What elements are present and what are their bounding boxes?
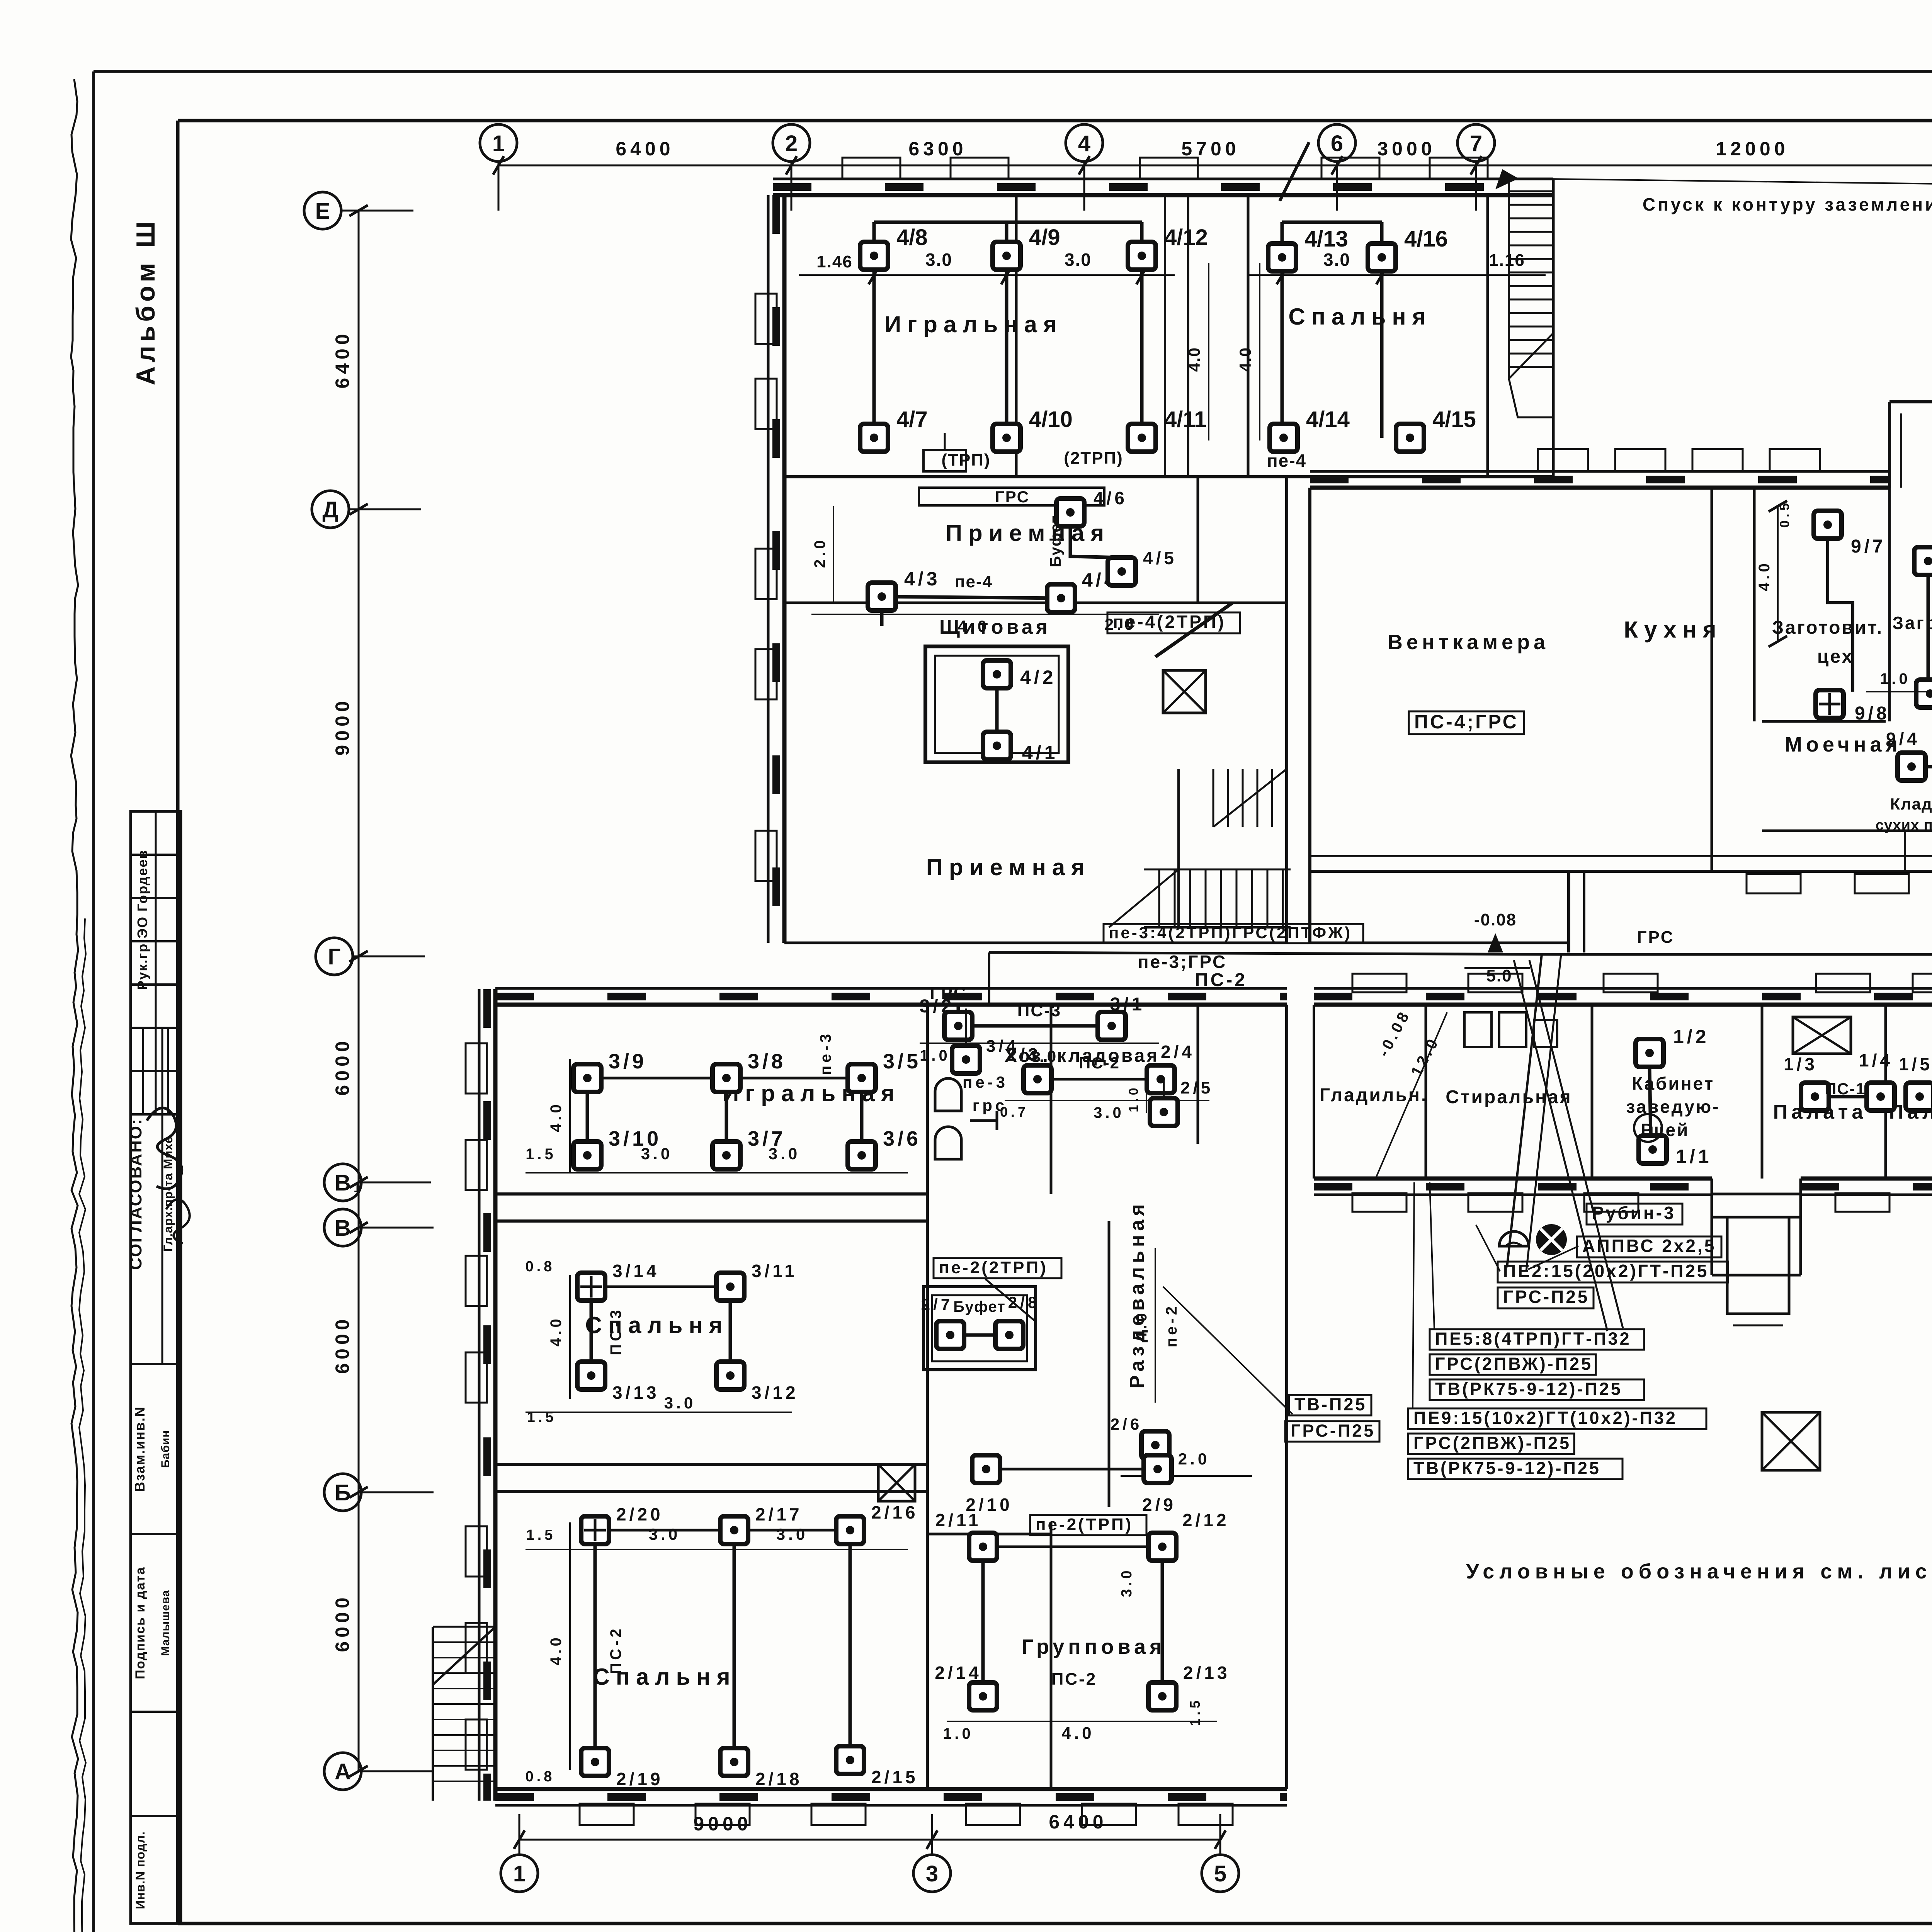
svg-text:ПС-2: ПС-2 <box>1051 1670 1097 1689</box>
svg-text:Альбом Ш: Альбом Ш <box>131 218 160 385</box>
svg-text:ГРС(2ПВЖ)-П25: ГРС(2ПВЖ)-П25 <box>1435 1354 1593 1374</box>
axis circle А <box>324 1753 361 1790</box>
svg-text:Рубин-3: Рубин-3 <box>1592 1203 1676 1223</box>
svg-text:Буфет: Буфет <box>953 1298 1006 1315</box>
fixture 3/6 <box>848 1141 876 1169</box>
svg-text:3.0: 3.0 <box>925 250 952 270</box>
lower-left wing bottom facade wall <box>495 1787 1287 1791</box>
svg-text:пе-3;ГРС: пе-3;ГРС <box>1138 952 1227 972</box>
fixture 4/9 <box>993 242 1020 270</box>
svg-text:9/8: 9/8 <box>1855 703 1890 724</box>
fixture 4/11 <box>1128 424 1156 452</box>
window bumps kitchen south wall <box>1747 874 1801 893</box>
svg-text:ГРС: ГРС <box>930 984 968 1003</box>
toilet fixtures row <box>935 1078 961 1111</box>
buffet fixtures 4/5 4/6 <box>1056 498 1084 526</box>
fixture 4/10 <box>993 424 1020 452</box>
svg-text:ПС-3: ПС-3 <box>1017 1001 1062 1020</box>
ventilation shaft X boxes <box>1793 1017 1851 1054</box>
svg-text:цех: цех <box>1817 646 1854 667</box>
fixture 4/15 <box>1396 424 1424 452</box>
axis circle B1 <box>324 1164 361 1201</box>
svg-text:ГРС: ГРС <box>995 488 1030 506</box>
vertical dim 4.0 pair top <box>1208 263 1209 440</box>
svg-text:ПС-4;ГРС: ПС-4;ГРС <box>1414 711 1519 733</box>
svg-text:пе-2: пе-2 <box>1163 1303 1180 1347</box>
svg-text:2/11: 2/11 <box>935 1510 981 1530</box>
svg-text:4.0: 4.0 <box>548 1634 565 1665</box>
svg-text:3/11: 3/11 <box>752 1261 798 1281</box>
svg-text:Подпись и дата: Подпись и дата <box>133 1566 148 1679</box>
upper rooms dim line <box>799 274 1175 276</box>
lower wings top facade wall with windows <box>495 1003 1287 1007</box>
svg-text:2/5: 2/5 <box>1180 1078 1213 1097</box>
left dimension line <box>358 211 360 1771</box>
fixture 3/5 <box>848 1064 876 1092</box>
svg-text:3.0: 3.0 <box>769 1145 800 1163</box>
labels TRP 2TRP <box>919 488 1104 505</box>
svg-text:пе-3:4(2ТРП)ГРС(2ПТФЖ): пе-3:4(2ТРП)ГРС(2ПТФЖ) <box>1109 923 1352 942</box>
svg-text:Д: Д <box>322 497 338 522</box>
svg-text:0.8: 0.8 <box>526 1259 555 1275</box>
svg-text:7: 7 <box>1470 131 1482 156</box>
annotation stack TV GRS small <box>1289 1395 1371 1415</box>
svg-text:Взам.инв.N: Взам.инв.N <box>132 1406 148 1492</box>
svg-text:Г: Г <box>328 944 341 969</box>
svg-text:Моечная: Моечная <box>1785 733 1901 756</box>
svg-text:1/1: 1/1 <box>1676 1146 1712 1167</box>
kitchen wiring 9/7 9/8 <box>1828 539 1853 692</box>
svg-text:ПЕ5:8(4ТРП)ГТ-П32: ПЕ5:8(4ТРП)ГТ-П32 <box>1435 1329 1631 1349</box>
svg-text:пе-2(ТРП): пе-2(ТРП) <box>1036 1515 1133 1534</box>
svg-text:4/8: 4/8 <box>896 225 928 250</box>
svg-text:ПЕ2:15(20х2)ГТ-П25: ПЕ2:15(20х2)ГТ-П25 <box>1503 1261 1709 1281</box>
svg-text:4/15: 4/15 <box>1432 407 1476 432</box>
fixture 2/5 <box>1150 1098 1178 1126</box>
svg-text:3.0: 3.0 <box>664 1394 696 1412</box>
svg-text:4/1: 4/1 <box>1022 742 1058 764</box>
fixture 4/14 <box>1270 424 1298 452</box>
svg-text:4.0: 4.0 <box>548 1316 565 1347</box>
svg-text:ПС-2: ПС-2 <box>1079 1054 1120 1072</box>
svg-text:ПС-2: ПС-2 <box>607 1626 624 1674</box>
svg-text:ГРС-П25: ГРС-П25 <box>1503 1287 1589 1307</box>
axis circle Б <box>324 1474 361 1511</box>
svg-text:Спуск к контуру заземления: Спуск к контуру заземления <box>1643 194 1932 214</box>
svg-text:-0.08: -0.08 <box>1474 910 1517 929</box>
svg-text:6400: 6400 <box>616 138 674 160</box>
svg-text:2/4: 2/4 <box>1161 1042 1195 1062</box>
axis circle 3 bottom <box>913 1855 951 1892</box>
wiring run sleeping room top <box>1282 221 1382 224</box>
svg-text:заведую-: заведую- <box>1626 1097 1720 1117</box>
svg-text:4/11: 4/11 <box>1164 407 1207 432</box>
annotation stack left-mid 2 <box>1430 1329 1644 1350</box>
svg-text:12000: 12000 <box>1716 138 1789 160</box>
svg-text:6000: 6000 <box>332 1315 353 1374</box>
label APPVS 2x2.5 <box>1577 1236 1721 1257</box>
svg-text:Кладовая: Кладовая <box>1890 795 1932 813</box>
svg-text:3.0: 3.0 <box>776 1525 808 1543</box>
label PS-2(2TRP) <box>934 1258 1061 1278</box>
svg-text:1.16: 1.16 <box>1489 251 1525 270</box>
svg-text:2/17: 2/17 <box>755 1504 803 1524</box>
svg-text:1: 1 <box>492 131 505 156</box>
svg-text:4/6: 4/6 <box>1094 488 1128 508</box>
svg-text:ТВ(РК75-9-12)-П25: ТВ(РК75-9-12)-П25 <box>1413 1458 1601 1478</box>
svg-text:ТВ(РК75-9-12)-П25: ТВ(РК75-9-12)-П25 <box>1435 1379 1622 1399</box>
svg-text:Е: Е <box>315 199 330 224</box>
buffet room box <box>923 1287 1036 1370</box>
svg-text:Групповая: Групповая <box>1021 1635 1165 1658</box>
svg-text:5: 5 <box>1214 1861 1226 1886</box>
svg-text:0.7: 0.7 <box>1000 1104 1029 1120</box>
svg-text:1.0: 1.0 <box>1126 1085 1141 1112</box>
sleeping room 1 wiring <box>591 1286 730 1288</box>
svg-text:6400: 6400 <box>332 330 353 388</box>
svg-text:5.0: 5.0 <box>1486 966 1512 985</box>
svg-text:2/6: 2/6 <box>1111 1415 1142 1433</box>
reception band walls <box>784 602 1287 604</box>
svg-text:4/14: 4/14 <box>1306 407 1350 432</box>
wiring run PS-4 upper playroom <box>874 221 1142 224</box>
axis circle 1 <box>480 124 517 162</box>
fixture 4/8 <box>860 242 888 270</box>
svg-text:Условные обозначения см. лист: Условные обозначения см. лист СС-2. <box>1466 1560 1932 1583</box>
svg-text:пе-4: пе-4 <box>955 572 993 591</box>
svg-text:2: 2 <box>785 131 798 156</box>
svg-text:пе-4(2ТРП): пе-4(2ТРП) <box>1113 612 1226 632</box>
svg-text:3.0: 3.0 <box>1119 1568 1135 1597</box>
svg-text:1/4: 1/4 <box>1859 1050 1893 1070</box>
entry porch below right wing <box>1712 1194 1801 1217</box>
svg-text:1/5: 1/5 <box>1899 1054 1932 1074</box>
svg-text:3/9: 3/9 <box>609 1050 647 1073</box>
svg-text:Приемная: Приемная <box>926 854 1091 880</box>
svg-text:1.0: 1.0 <box>943 1725 974 1742</box>
svg-text:3/6: 3/6 <box>883 1127 921 1150</box>
svg-text:4/9: 4/9 <box>1029 225 1060 250</box>
svg-text:3/5: 3/5 <box>883 1050 921 1073</box>
razdevalnaya dims <box>1155 1248 1156 1403</box>
window bumps left facade lower wing <box>466 1043 487 1094</box>
svg-text:Щитовая: Щитовая <box>939 616 1051 638</box>
svg-text:3.0: 3.0 <box>649 1525 680 1543</box>
svg-text:3: 3 <box>926 1861 938 1886</box>
svg-text:4/13: 4/13 <box>1304 226 1348 252</box>
svg-text:3/13: 3/13 <box>612 1383 660 1403</box>
sleeping room 2 wiring <box>595 1529 850 1532</box>
svg-text:В: В <box>335 1216 351 1241</box>
axis circle Е <box>304 192 341 229</box>
svg-text:2.0: 2.0 <box>1178 1450 1210 1468</box>
label Rubin-3 <box>1587 1204 1682 1225</box>
svg-text:1: 1 <box>513 1861 526 1886</box>
svg-text:3/4: 3/4 <box>986 1037 1019 1056</box>
svg-text:1.0: 1.0 <box>920 1047 951 1064</box>
fixture 4/12 <box>1128 242 1156 270</box>
svg-text:1.0: 1.0 <box>1880 670 1911 687</box>
svg-text:3.0: 3.0 <box>1094 1104 1124 1121</box>
svg-text:пе-3: пе-3 <box>817 1031 834 1075</box>
svg-text:3/1: 3/1 <box>1110 994 1145 1015</box>
svg-text:1.46: 1.46 <box>816 252 853 271</box>
svg-text:ГРС-П25: ГРС-П25 <box>1291 1421 1375 1440</box>
svg-text:9000: 9000 <box>332 697 353 755</box>
axis circle 4 <box>1066 124 1103 162</box>
svg-text:2/18: 2/18 <box>755 1769 803 1789</box>
svg-text:пе-2(2ТРП): пе-2(2ТРП) <box>939 1258 1048 1277</box>
svg-text:2/16: 2/16 <box>871 1502 918 1522</box>
svg-text:4/12: 4/12 <box>1164 225 1208 250</box>
svg-text:2/12: 2/12 <box>1182 1510 1230 1530</box>
svg-text:6300: 6300 <box>908 138 967 160</box>
riser label pe-4(2TRP) <box>1107 612 1240 633</box>
svg-text:3/8: 3/8 <box>748 1050 786 1073</box>
left stamp table column <box>131 811 181 1923</box>
kitchen wiring 9/6 9/5 <box>1927 574 1930 680</box>
svg-text:3.0: 3.0 <box>641 1145 673 1163</box>
axis circle Д <box>312 491 349 528</box>
svg-text:4.0: 4.0 <box>1756 560 1773 591</box>
svg-text:2/19: 2/19 <box>616 1769 663 1789</box>
svg-text:1.5: 1.5 <box>526 1146 556 1163</box>
riser to TV symbols lower middle <box>1507 954 1542 1267</box>
svg-text:4.0: 4.0 <box>1061 1724 1094 1743</box>
svg-text:Игральная: Игральная <box>884 311 1063 337</box>
svg-text:Загрузочная: Загрузочная <box>1892 613 1932 633</box>
svg-text:Рук.гр.ЭО Гордеев: Рук.гр.ЭО Гордеев <box>134 849 150 990</box>
svg-text:6: 6 <box>1331 131 1343 156</box>
svg-text:3/14: 3/14 <box>612 1261 660 1281</box>
svg-text:пе-4: пе-4 <box>1267 451 1306 471</box>
fixture 4/13 <box>1268 243 1296 271</box>
svg-text:4.0: 4.0 <box>1185 347 1203 372</box>
svg-text:4.0: 4.0 <box>1236 347 1254 372</box>
svg-text:Спальня: Спальня <box>585 1312 728 1338</box>
fixture 3/7 <box>713 1141 740 1169</box>
svg-text:ГРС(2ПВЖ)-П25: ГРС(2ПВЖ)-П25 <box>1413 1433 1571 1453</box>
kitchen riser pair to trunk <box>1567 871 1570 952</box>
laundry equipment boxes <box>1464 1012 1492 1047</box>
wiring run reception PS-4 <box>882 597 1061 598</box>
svg-text:6000: 6000 <box>332 1037 353 1095</box>
porch stair bottom-left <box>433 1626 495 1628</box>
window bumps bottom facade lower wing <box>580 1804 634 1825</box>
svg-text:4/2: 4/2 <box>1020 667 1056 688</box>
right wing fixtures PS-1 <box>1636 1039 1663 1067</box>
kitchen wiring 9/1..9/4 <box>1912 765 1932 769</box>
svg-text:Заготовит.: Заготовит. <box>1772 617 1883 638</box>
svg-text:Малышева: Малышева <box>159 1590 172 1656</box>
svg-text:ПС-2: ПС-2 <box>1195 970 1247 990</box>
svg-text:Раздевальная: Раздевальная <box>1126 1200 1148 1388</box>
svg-text:2/9: 2/9 <box>1142 1495 1176 1515</box>
trunk labels mid <box>1104 924 1363 943</box>
svg-text:2.0: 2.0 <box>811 537 828 568</box>
inner frame <box>178 119 1932 122</box>
annotation stack left-mid 1 <box>1498 1262 1728 1282</box>
svg-text:Кабинет: Кабинет <box>1632 1073 1714 1094</box>
TV antenna symbol <box>1536 1224 1567 1255</box>
long riser diagonals through laundry <box>1529 960 1623 1328</box>
wiring run PS-3 reception 2 <box>958 1024 1112 1028</box>
axis circle 7 <box>1458 124 1495 162</box>
schitovaya room walls <box>925 646 1068 762</box>
svg-text:ПС-3: ПС-3 <box>607 1307 624 1355</box>
main corridor trunk run <box>989 952 1932 954</box>
svg-text:4/5: 4/5 <box>1143 548 1177 568</box>
svg-text:3000: 3000 <box>1377 138 1435 160</box>
axis circle Г <box>316 938 353 975</box>
right wing interior walls <box>1425 1005 1427 1179</box>
lower-left wing playroom wiring <box>587 1077 862 1080</box>
kitchen interior walls <box>1753 488 1756 721</box>
kitchen block bottom wall <box>1310 870 1932 873</box>
svg-text:сухих продукт.: сухих продукт. <box>1876 817 1932 833</box>
fixture 3/10 <box>573 1141 601 1169</box>
axis circle В <box>324 1209 361 1246</box>
gruppovaya wiring <box>983 1546 1162 1548</box>
axis circle 1 bottom <box>501 1855 538 1892</box>
svg-text:1/2: 1/2 <box>1673 1026 1709 1048</box>
svg-text:1.5: 1.5 <box>527 1409 557 1425</box>
svg-text:1.5: 1.5 <box>526 1527 556 1543</box>
wiring run pe-2 TRP bottom <box>986 1468 1158 1471</box>
window bumps wing A left facade <box>755 294 777 344</box>
fixture 3/8 <box>713 1064 740 1092</box>
window bumps right wing facades <box>1352 974 1406 992</box>
svg-text:Бабин: Бабин <box>159 1430 172 1468</box>
svg-text:2/15: 2/15 <box>871 1767 918 1787</box>
outer thin border <box>94 70 1932 73</box>
svg-text:СОГЛАСОВАНО:: СОГЛАСОВАНО: <box>126 1118 145 1270</box>
label PS-4 GRS underlined <box>1409 711 1524 734</box>
top dimension line <box>498 165 1932 167</box>
courtyard bottom wall with windows <box>1310 486 1889 490</box>
svg-text:В: В <box>335 1170 351 1196</box>
svg-text:ПЕ9:15(10х2)ГТ(10х2)-П32: ПЕ9:15(10х2)ГТ(10х2)-П32 <box>1413 1408 1677 1428</box>
window bumps courtyard wall <box>1538 449 1588 471</box>
right wing bottom facade wall <box>1314 1177 1712 1181</box>
svg-text:Инв.N подл.: Инв.N подл. <box>133 1831 147 1909</box>
svg-text:Кухня: Кухня <box>1624 617 1722 643</box>
axis circle 6 <box>1318 124 1355 162</box>
svg-text:6000: 6000 <box>332 1594 353 1652</box>
window bump top facade wing A <box>842 158 900 179</box>
svg-text:6400: 6400 <box>1049 1811 1107 1833</box>
svg-text:4: 4 <box>1078 131 1090 156</box>
wing A left facade wall <box>782 195 787 943</box>
buffet fixtures 2/7 2/8 <box>936 1321 964 1349</box>
svg-text:4/7: 4/7 <box>896 407 928 432</box>
svg-text:А: А <box>335 1759 351 1784</box>
svg-text:5700: 5700 <box>1181 138 1240 160</box>
svg-text:(2ТРП): (2ТРП) <box>1064 449 1123 468</box>
svg-text:Р: Р <box>1641 1120 1655 1139</box>
stamp signature scribbles <box>147 1108 182 1189</box>
axis circle 5 bottom <box>1202 1855 1239 1892</box>
svg-text:2/20: 2/20 <box>616 1504 663 1524</box>
svg-text:1.5: 1.5 <box>1187 1697 1203 1726</box>
svg-text:2/7: 2/7 <box>921 1295 953 1313</box>
svg-text:ГРС: ГРС <box>1637 928 1675 947</box>
right block protrusion step <box>1889 400 1932 403</box>
svg-text:4.0: 4.0 <box>548 1101 565 1132</box>
svg-text:Б: Б <box>335 1480 351 1505</box>
svg-text:3/12: 3/12 <box>752 1383 799 1403</box>
svg-text:9000: 9000 <box>693 1813 752 1835</box>
svg-text:ТВ-П25: ТВ-П25 <box>1294 1395 1367 1414</box>
svg-text:1/3: 1/3 <box>1784 1054 1818 1074</box>
svg-text:2/14: 2/14 <box>935 1663 982 1683</box>
main staircase mid-left <box>1158 869 1160 927</box>
wing A top facade wall with windows <box>773 193 1553 197</box>
svg-text:Стиральная: Стиральная <box>1446 1087 1572 1107</box>
ventkamera block walls <box>1308 488 1311 943</box>
svg-text:Спальня: Спальня <box>1288 304 1432 330</box>
sawtooth stair top middle <box>1552 179 1555 417</box>
svg-text:2/13: 2/13 <box>1183 1663 1230 1683</box>
wing A interior walls <box>784 475 1553 478</box>
svg-text:9/7: 9/7 <box>1851 536 1886 557</box>
svg-text:4.0: 4.0 <box>958 617 990 635</box>
fixture 3/9 <box>573 1064 601 1092</box>
torn left paper edge <box>71 79 78 1932</box>
svg-text:4.0: 4.0 <box>1133 1310 1150 1341</box>
svg-text:4/3: 4/3 <box>904 568 940 590</box>
axis circle 2 <box>773 124 810 162</box>
hoz kladovaya wiring <box>1037 1078 1161 1081</box>
svg-text:пе-3: пе-3 <box>963 1073 1008 1091</box>
fixture 4/7 <box>860 424 888 452</box>
svg-text:3.0: 3.0 <box>1323 250 1350 270</box>
grounding loop line along courtyard top <box>1519 179 1932 185</box>
svg-text:9/4: 9/4 <box>1886 729 1920 749</box>
svg-text:3.0: 3.0 <box>1065 250 1092 270</box>
lower-left wing left facade wall <box>493 989 498 1801</box>
lower-left wing interior walls <box>495 1192 927 1196</box>
mid corridor north wall <box>784 942 1287 944</box>
svg-text:Венткамера: Венткамера <box>1388 631 1549 654</box>
schitovaya fixtures <box>983 660 1011 688</box>
bottom dimension line <box>519 1839 1220 1841</box>
svg-text:0.8: 0.8 <box>526 1769 555 1785</box>
fixture 4/16 <box>1368 243 1396 271</box>
symbol P circle <box>1634 1114 1662 1142</box>
svg-text:4/10: 4/10 <box>1029 407 1073 432</box>
svg-text:4/16: 4/16 <box>1404 226 1448 252</box>
annotation stack left-mid 3 <box>1408 1408 1706 1429</box>
svg-text:0.5: 0.5 <box>1777 500 1792 527</box>
